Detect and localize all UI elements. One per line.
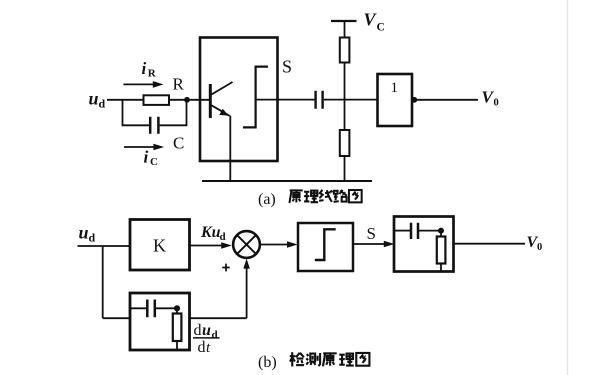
wire cap lead (RC box) bbox=[394, 230, 410, 232]
wire R to node and into box bbox=[169, 99, 210, 101]
svg-text:(b): (b) bbox=[258, 354, 277, 371]
wire resistor to box bottom (derivative box) bbox=[176, 341, 178, 350]
wire derivative box output bbox=[190, 317, 247, 319]
output node dot bbox=[411, 97, 417, 103]
wire resistor to ground bbox=[344, 156, 346, 181]
wire branch down bbox=[102, 246, 104, 318]
capacitor plates (RC box) bbox=[411, 223, 418, 239]
junction dot (derivative box) bbox=[174, 305, 180, 311]
wire resistor to box bottom (RC box) bbox=[440, 264, 442, 272]
svg-text:u: u bbox=[89, 89, 99, 109]
wire branch to derivative box bbox=[103, 317, 130, 319]
caption (b) bbox=[258, 352, 369, 371]
multiplier X bbox=[237, 235, 255, 253]
step symbol S inside box bbox=[243, 67, 268, 128]
wire cap to junction (RC box) bbox=[419, 230, 441, 232]
comparator box bbox=[298, 223, 353, 271]
wire cap lead (derivative box) bbox=[130, 307, 146, 309]
wire junction to resistor (RC box) bbox=[440, 231, 442, 237]
svg-text:C: C bbox=[150, 156, 158, 168]
resistor R bbox=[144, 95, 170, 105]
svg-text:d: d bbox=[194, 322, 202, 339]
capacitor C plates bbox=[150, 117, 158, 134]
current arrow iC bbox=[124, 146, 155, 148]
wire VC to resistor bbox=[344, 21, 346, 38]
svg-text:R: R bbox=[173, 75, 185, 94]
svg-text:K: K bbox=[153, 236, 166, 256]
step symbol inside comparator bbox=[315, 229, 336, 260]
capacitor plates (derivative box) bbox=[147, 300, 155, 318]
resistor (derivative box) bbox=[173, 314, 182, 342]
VC supply bar bbox=[331, 20, 357, 22]
wire between resistors bbox=[344, 63, 346, 131]
svg-text:V: V bbox=[364, 10, 378, 30]
wire capacitor to inverter bbox=[324, 99, 378, 101]
wire left branch down bbox=[122, 100, 124, 126]
svg-text:t: t bbox=[206, 340, 211, 356]
wire step output through box edge bbox=[256, 99, 315, 101]
label + bbox=[222, 264, 229, 272]
svg-text:(a): (a) bbox=[258, 191, 276, 208]
resistor pull-down bbox=[340, 130, 350, 156]
multiplier circle bbox=[233, 231, 260, 258]
wire junction to resistor (derivative box) bbox=[176, 308, 178, 313]
wire ud to R bbox=[107, 99, 144, 101]
svg-text:u: u bbox=[202, 322, 211, 339]
modulator box U1 bbox=[200, 38, 278, 162]
svg-text:d: d bbox=[212, 329, 218, 341]
svg-text:0: 0 bbox=[537, 242, 542, 253]
transistor Q1 emitter with arrow bbox=[212, 105, 230, 116]
ground line bbox=[202, 180, 372, 182]
wire right branch up to node bbox=[186, 100, 188, 126]
transistor Q1 collector bbox=[212, 82, 233, 95]
gain box K bbox=[130, 220, 190, 271]
resistor pull-up bbox=[340, 38, 350, 63]
wire to V0 bbox=[412, 99, 478, 101]
svg-text:d: d bbox=[89, 231, 96, 245]
svg-text:d: d bbox=[220, 231, 226, 243]
label dud/dt bbox=[193, 322, 220, 356]
wire emitter down to ground bbox=[229, 116, 231, 182]
arrow K to multiplier bbox=[190, 245, 224, 247]
coupling capacitor plates bbox=[316, 91, 323, 109]
svg-text:R: R bbox=[148, 68, 157, 80]
wire ud to K box bbox=[78, 245, 131, 247]
wire capacitor branch right bbox=[160, 124, 188, 126]
svg-text:i: i bbox=[142, 59, 147, 78]
node junction dot bbox=[184, 97, 190, 103]
transistor Q1 base bar bbox=[209, 84, 212, 118]
wire cap to junction (derivative box) bbox=[156, 307, 177, 309]
junction dot (RC box) bbox=[438, 228, 444, 234]
svg-text:S: S bbox=[282, 57, 292, 77]
wire capacitor branch left bbox=[122, 124, 149, 126]
current arrow iR bbox=[124, 83, 155, 85]
arrow multiplier to comparator bbox=[260, 244, 289, 246]
wire derivative output up bbox=[246, 267, 248, 319]
caption (a) bbox=[258, 190, 362, 208]
svg-text:Ku: Ku bbox=[200, 224, 221, 241]
resistor (RC box) bbox=[437, 237, 446, 264]
svg-text:d: d bbox=[99, 97, 106, 111]
RC output box bbox=[394, 217, 454, 272]
arrow comparator to RC box bbox=[353, 243, 386, 245]
svg-text:C: C bbox=[377, 22, 385, 34]
svg-text:d: d bbox=[198, 339, 206, 356]
svg-text:i: i bbox=[144, 148, 149, 167]
scan artifact vertical line bbox=[567, 0, 569, 375]
wire RC box to V0 bbox=[454, 243, 526, 245]
derivative box bbox=[130, 293, 190, 350]
svg-text:0: 0 bbox=[494, 98, 499, 109]
svg-text:1: 1 bbox=[391, 80, 399, 96]
svg-text:C: C bbox=[173, 134, 184, 153]
svg-text:u: u bbox=[79, 223, 89, 243]
inverter box 1 bbox=[378, 74, 413, 126]
svg-text:S: S bbox=[367, 224, 376, 243]
